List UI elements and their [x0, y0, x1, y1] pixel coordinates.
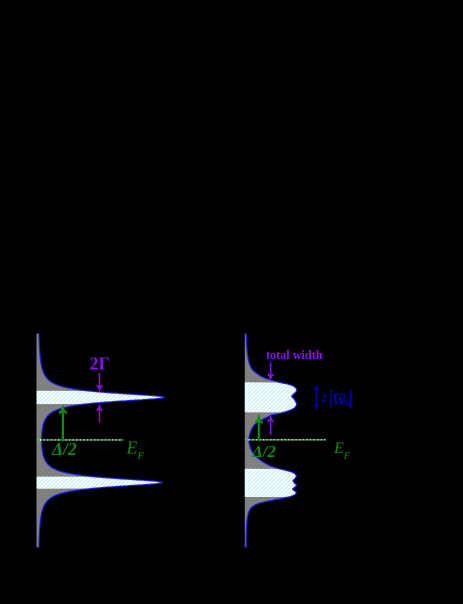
blue 2|W_N| double arrow (right panel)	[314, 384, 319, 411]
hatched peak band 2 (left panel)	[37, 477, 163, 489]
label 2|W_N| (right panel)	[321, 390, 352, 409]
hatched peak band 1 (left panel, 2-Gamma strip)	[37, 391, 165, 404]
grey DOS fill (right panel)	[245, 334, 297, 548]
DOS curve (left panel)	[39, 334, 165, 548]
hatched band 1 (right panel)	[245, 382, 297, 412]
grey DOS fill (left panel)	[37, 334, 165, 548]
magenta 2-Gamma arrows (left panel)	[97, 373, 103, 423]
svg-text:total width: total width	[266, 348, 323, 362]
Fermi level dotted line (right panel)	[246, 439, 326, 441]
svg-text:2Γ: 2Γ	[90, 354, 110, 374]
hatched band 2 (right panel)	[245, 469, 297, 497]
svg-text:N: N	[343, 399, 350, 409]
DOS curve (right panel)	[246, 334, 297, 548]
svg-text:Δ/2: Δ/2	[51, 439, 77, 459]
green Delta/2 arrow (left panel)	[59, 404, 67, 441]
Fermi level dotted line (left panel)	[37, 439, 123, 441]
magenta total-width arrows (right panel)	[268, 362, 274, 434]
green Delta/2 arrow (right panel)	[255, 414, 263, 441]
svg-text:2: 2	[321, 390, 327, 404]
svg-text:Δ/2: Δ/2	[251, 442, 276, 461]
